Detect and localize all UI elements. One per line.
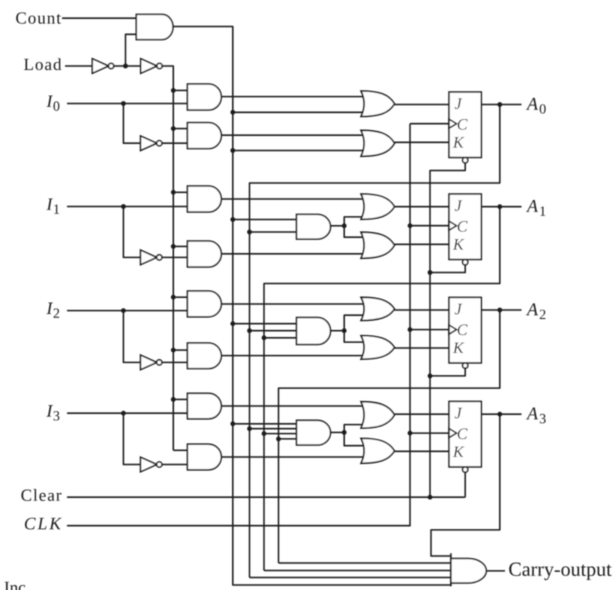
wire carry tap x=264.0 to AND C2 (264, 337, 299, 339)
flip-flop FF1 pin label C (458, 221, 468, 232)
input label I2 (46, 303, 53, 314)
flip-flop FF0 clear bubble (463, 158, 468, 163)
junction CLK bus at FF2 (408, 327, 413, 332)
junction load bus at A2a tap (171, 295, 176, 300)
AND gate C1 (carry chain) (297, 214, 331, 239)
OR gate J0 (361, 91, 395, 117)
wire load bus to AND A2b top input (173, 349, 187, 351)
wire Clear bus vertical (429, 170, 431, 497)
wire inverter N5 output to AND gate (162, 361, 188, 363)
flip-flop FF3 box (449, 401, 481, 467)
wire carry tap x=249.5 to AND C3 (250, 428, 299, 430)
junction on count-enable bus at K0 tap (230, 148, 235, 153)
wire I3 branch to inverter N6 (123, 413, 140, 464)
wire I3 input line (67, 412, 187, 414)
inverter N6 (I3') (141, 457, 157, 472)
flip-flop FF0 clock triangle (449, 119, 457, 128)
AND gate A0b (Load AND I0') (187, 123, 221, 149)
wire riser to OR K1 upper input (344, 226, 363, 237)
junction node A0 (497, 102, 502, 107)
wire carry tap x=232.8 to AND C2 (233, 323, 299, 325)
output label A2 (526, 303, 538, 315)
wire inverter N4 output to AND gate (162, 256, 188, 258)
junction Clear bus root (428, 495, 433, 500)
junction carry tap (249.5,428.7) (247, 426, 252, 431)
flip-flop FF3 pin label K (453, 447, 465, 457)
caption Inc (clipped) (5, 582, 26, 590)
flip-flop FF3 pin label J (455, 408, 462, 419)
wire inverter N6 output to AND gate (162, 464, 188, 466)
junction carry tap (232.8,423.8) (230, 421, 235, 426)
inverter N4 (I1') (141, 250, 157, 265)
flip-flop FF1 pin label J (455, 200, 462, 211)
wire OR J0 output to FF0 J input (395, 104, 450, 106)
junction carry tap (278.5,438.9) (276, 437, 281, 442)
AND gate C3 (carry chain) (297, 420, 331, 445)
junction load bus at A0a tap (171, 88, 176, 93)
wire count-enable to OR K0 (233, 150, 363, 152)
OR gate K2 (361, 336, 395, 360)
wire I0 branch to inverter N3 (123, 104, 140, 144)
wire A2 feedback to carry-output gate (279, 562, 451, 564)
junction carry riser node (342, 328, 347, 333)
flip-flop FF0 box (449, 92, 481, 158)
wire AND A1b output to OR K1 bottom input (221, 253, 363, 255)
wire AND A0a output to OR J0 (221, 96, 363, 98)
AND gate G2 (carry-output) input bar (450, 553, 452, 586)
OR gate J3 (361, 402, 395, 428)
junction carry tap (249.5,330.7) (247, 328, 252, 333)
wire A0 feedback to carry-output gate (250, 577, 451, 579)
input label I1 (46, 198, 53, 209)
input label CLK (25, 518, 62, 530)
flip-flop FF1 pin label K (453, 239, 465, 249)
input label Load (24, 58, 61, 70)
wire load bus to AND A3a top input (173, 398, 187, 400)
wire carry tap x=264.0 to AND C3 (264, 433, 299, 435)
flip-flop FF2 pin label K (453, 343, 465, 353)
flip-flop FF3 clock triangle (449, 429, 457, 438)
junction node A1 (497, 204, 502, 209)
wire I2 branch to inverter N5 (123, 311, 140, 363)
flip-flop FF2 clear bubble (463, 363, 468, 368)
OR gate K3 (361, 438, 395, 463)
flip-flop FF2 clock triangle (449, 325, 457, 334)
flip-flop FF3 pin label C (458, 428, 468, 439)
flip-flop FF2 box (449, 297, 481, 363)
wire OR J3 output to FF3 J input (395, 413, 450, 415)
wire carry tap x=249.5 to AND C1 (250, 231, 299, 233)
wire load bus to AND A1b top input (173, 245, 187, 247)
wire load bus to AND A0a top input (173, 89, 187, 91)
wire OR J1 output to FF1 J input (395, 206, 450, 208)
wire G1 second input from Load' node (126, 34, 137, 66)
wire count-enable to OR J0 (233, 111, 363, 113)
wire A1 feedback drop (264, 207, 500, 571)
wire I0 input line (67, 103, 187, 105)
flip-flop FF1 clear bubble (463, 260, 468, 265)
inverter N5 (I2') (141, 355, 157, 370)
wire riser to OR K3 upper input (344, 432, 363, 445)
junction node A3 (497, 412, 502, 417)
wire riser to OR K2 upper input (344, 331, 363, 342)
wire FF0 output to A0 (481, 104, 521, 106)
wire I2 input line (67, 310, 187, 312)
wire CLK bus to FF1 C input (410, 225, 449, 227)
junction load bus at A1a tap (171, 190, 176, 195)
junction I1 branch (121, 204, 126, 209)
OR gate K1 (361, 232, 395, 258)
output label A3 (526, 408, 538, 420)
OR gate J1 (361, 194, 395, 219)
wire AND C1 output to riser (331, 225, 345, 227)
wire OR J2 output to FF2 J input (395, 309, 450, 311)
wire N2 output to load bus (162, 66, 173, 450)
wire FF3 output to A3 (481, 413, 521, 415)
OR gate K0 (361, 130, 395, 156)
wire AND A2a output to OR J2 (221, 303, 363, 305)
junction load bus at A1b tap (171, 244, 176, 249)
flip-flop FF1 clock triangle (449, 221, 457, 230)
wire riser to OR J2 lower input (344, 315, 363, 331)
junction I3 branch (121, 411, 126, 416)
junction carry tap (232.8,219.5) (230, 217, 235, 222)
wire A2 feedback drop (279, 310, 500, 563)
AND gate A2a (Load AND I2) (187, 291, 221, 317)
junction carry riser node (342, 223, 347, 228)
junction CLK bus at FF1 (408, 223, 413, 228)
AND gate A2b (Load AND I2') (187, 343, 221, 369)
wire FF0 clear to Clear bus (430, 163, 465, 171)
AND gate A3a (Load AND I3) (187, 393, 221, 419)
wire OR K1 output to FF1 K input (395, 243, 450, 245)
junction I2 branch (121, 308, 126, 313)
wire AND A0b output to OR K0 top input (221, 134, 363, 136)
AND gate A1b (Load AND I1') (187, 241, 221, 267)
input label I3 (46, 405, 53, 416)
wire AND A3a output to OR J3 (221, 405, 363, 407)
flip-flop FF2 pin label J (455, 304, 462, 315)
junction load bus at A2b tap (171, 348, 176, 353)
wire OR K2 output to FF2 K input (395, 347, 450, 349)
wire A0 feedback drop (250, 105, 500, 578)
wire A1 feedback to carry-output gate (264, 570, 451, 572)
wire load bus to AND A2a top input (173, 296, 187, 298)
AND gate A0a (Load AND I0) (187, 84, 221, 110)
wire CLK bus to FF2 C input (410, 329, 449, 331)
junction carry riser node (342, 430, 347, 435)
wire I1 branch to inverter N4 (123, 207, 140, 258)
wire AND C2 output to riser (331, 330, 345, 332)
wire riser to OR J3 lower input (344, 425, 363, 433)
junction load bus at A3a tap (171, 397, 176, 402)
wire load bus to AND A0b top input (173, 128, 187, 130)
junction I0 branch (121, 101, 126, 106)
wire G1 output to count-enable bus (173, 27, 451, 586)
junction carry tap (264.0,337.8) (262, 335, 267, 340)
flip-flop FF0 pin label K (453, 137, 465, 147)
wire AND A2b output to OR K2 bottom input (221, 355, 363, 357)
input label I0 (46, 95, 53, 106)
wire FF2 output to A2 (481, 309, 521, 311)
wire CLK line (67, 124, 410, 526)
wire FF3 clear down to Clear line (464, 472, 466, 497)
wire carry-output (486, 570, 505, 572)
output label A0 (526, 98, 538, 110)
wire FF1 output to A1 (481, 206, 521, 208)
wire OR K3 output to FF3 K input (395, 450, 450, 452)
junction carry tap (264.0,433.6) (262, 431, 267, 436)
wire AND A3b output to OR K3 bottom input (221, 456, 363, 458)
junction load bus at A0b tap (171, 126, 176, 131)
output label A1 (526, 200, 538, 212)
wire OR K0 output to FF0 K input (395, 141, 450, 143)
wire carry tap x=232.8 to AND C3 (233, 423, 299, 425)
flip-flop FF1 box (449, 194, 481, 260)
wire load bus to AND A1a top input (173, 191, 187, 193)
wire FF2 clear to Clear bus (430, 368, 465, 376)
AND gate A3b (Load AND I3') (187, 444, 221, 470)
wire Clear line (67, 496, 465, 498)
wire CLK bus to FF3 C input (410, 432, 449, 434)
wire CLK bus to FF0 C input (410, 123, 449, 125)
junction Load' node (123, 64, 128, 69)
wire Count to AND gate G1 (62, 17, 136, 19)
wire carry tap x=278.5 to AND C3 (279, 438, 299, 440)
AND gate C2 (carry chain) (297, 318, 331, 345)
wire inverter N3 output to AND gate (162, 142, 188, 144)
wire riser to OR J1 lower input (344, 217, 363, 226)
input label Count (16, 12, 61, 23)
flip-flop FF2 pin label C (458, 324, 468, 335)
AND gate A1a (Load AND I1) (187, 186, 221, 212)
junction Clear bus at FF1 (428, 270, 433, 275)
wire N1 output to inverter N2 (114, 65, 141, 67)
wire A3 feedback drop (431, 414, 500, 556)
junction carry tap (232.8,323.7) (230, 321, 235, 326)
wire load bus to AND A3b top input (173, 449, 187, 451)
flip-flop FF3 clear bubble (463, 467, 468, 472)
wire FF1 clear to Clear bus (430, 265, 465, 273)
wire Load to inverter N1 (65, 65, 92, 67)
wire carry tap x=249.5 to AND C2 (250, 330, 299, 332)
junction Clear bus at FF2 (428, 374, 433, 379)
junction node A2 (497, 308, 502, 313)
wire I1 input line (67, 206, 187, 208)
inverter N2 (Load'') (141, 59, 157, 74)
wire carry tap x=232.8 to AND C1 (233, 219, 299, 221)
AND gate G2 (carry-output) body (451, 559, 486, 584)
junction CLK bus at FF3 (408, 431, 413, 436)
junction carry tap (249.5,232.0) (247, 230, 252, 235)
junction on count-enable bus at J0 tap (230, 110, 235, 115)
flip-flop FF0 pin label J (455, 98, 462, 109)
inverter N3 (I0') (141, 136, 157, 151)
wire AND A1a output to OR J1 (221, 198, 363, 200)
flip-flop FF0 pin label C (458, 119, 468, 130)
output label Carry-output (509, 563, 611, 581)
wire AND C3 output to riser (331, 431, 345, 433)
AND gate G1 (Count AND Load') (136, 14, 173, 39)
OR gate J2 (361, 297, 395, 320)
inverter N1 (Load') (92, 59, 108, 74)
input label Clear (21, 489, 61, 501)
